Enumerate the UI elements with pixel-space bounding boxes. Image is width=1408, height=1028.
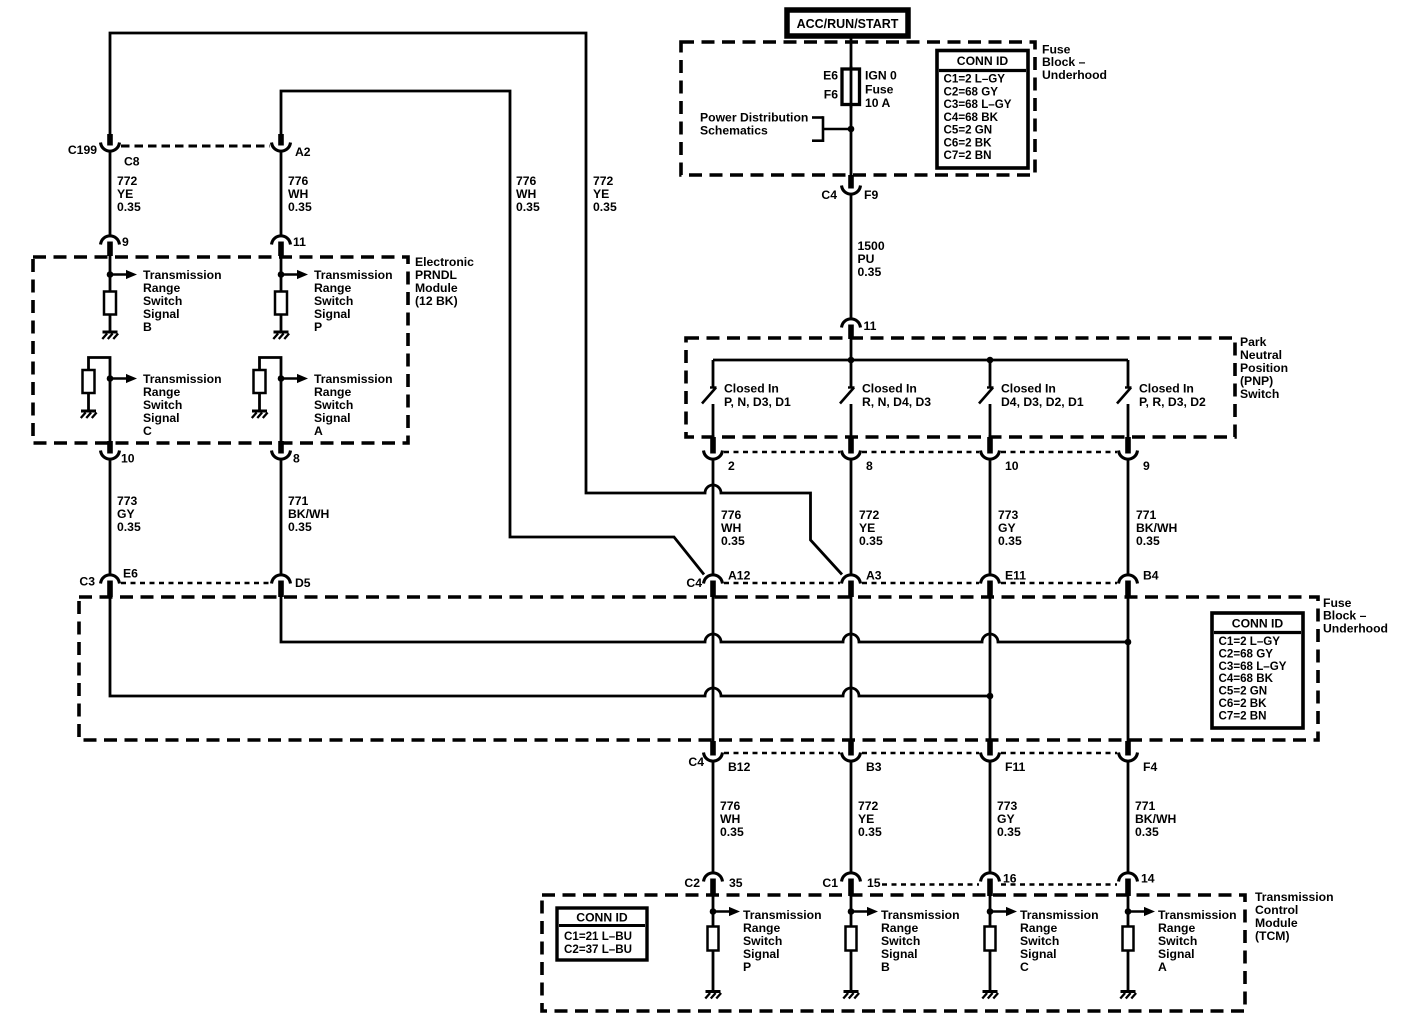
svg-text:Closed In: Closed In [1139, 382, 1194, 396]
svg-text:ACC/RUN/START: ACC/RUN/START [797, 17, 899, 31]
resistor signal C [83, 370, 95, 393]
svg-text:IGN 0: IGN 0 [865, 69, 897, 83]
wire 772 YE harness C199 to A3 [110, 33, 842, 575]
svg-text:Transmission: Transmission [1158, 908, 1237, 922]
svg-text:C3: C3 [79, 575, 95, 589]
svg-text:WH: WH [516, 187, 536, 201]
svg-text:B4: B4 [1143, 569, 1159, 583]
wire PNP pin 10 down to fuse block [989, 459, 992, 575]
junction dot TCM signal P [710, 908, 717, 915]
svg-text:Underhood: Underhood [1323, 621, 1388, 635]
svg-text:A2: A2 [295, 145, 311, 159]
svg-text:Closed In: Closed In [724, 382, 779, 396]
svg-text:Control: Control [1255, 903, 1298, 917]
svg-text:YE: YE [593, 187, 609, 201]
power feed box ACC/RUN/START [787, 10, 908, 36]
svg-text:0.35: 0.35 [858, 265, 882, 279]
svg-text:F11: F11 [1005, 760, 1026, 774]
wire B4 to F4 through fuse block [1127, 596, 1130, 744]
ground signal A [252, 411, 268, 418]
svg-text:776: 776 [721, 508, 742, 522]
svg-text:Electronic: Electronic [415, 255, 474, 269]
wire E6 to F11 inside fuse block (773 GY) [110, 596, 990, 696]
svg-text:0.35: 0.35 [997, 825, 1021, 839]
svg-text:Range: Range [743, 921, 780, 935]
svg-text:Transmission: Transmission [743, 908, 822, 922]
resistor TCM signal C [985, 927, 996, 951]
svg-text:C: C [1020, 960, 1029, 974]
ground signal C [81, 411, 97, 418]
svg-text:Transmission: Transmission [881, 908, 960, 922]
svg-text:772: 772 [859, 508, 880, 522]
svg-text:Power Distribution: Power Distribution [700, 111, 808, 125]
svg-text:0.35: 0.35 [1135, 825, 1159, 839]
wire resistor A to ground [258, 392, 261, 410]
svg-text:B12: B12 [728, 760, 751, 774]
svg-text:P: P [314, 320, 322, 334]
wire TCM resistor A to ground [1127, 950, 1130, 991]
wire B3 down to TCM [850, 761, 853, 873]
resistor signal A [254, 370, 266, 393]
svg-text:Transmission: Transmission [1020, 908, 1099, 922]
svg-text:Closed In: Closed In [1001, 382, 1056, 396]
connector pin 8 PRNDL [272, 441, 291, 459]
svg-text:Signal: Signal [743, 947, 780, 961]
svg-text:E6: E6 [823, 69, 838, 83]
svg-text:773: 773 [997, 799, 1018, 813]
ground signal B [102, 332, 118, 339]
junction dot 773 GY at F11 column [987, 693, 994, 700]
svg-text:0.35: 0.35 [593, 200, 617, 214]
conn id table (middle fuse block) [1212, 613, 1303, 728]
arrow TCM signal B [851, 907, 878, 916]
svg-text:(PNP): (PNP) [1240, 374, 1273, 388]
svg-text:C7=2 BN: C7=2 BN [944, 149, 992, 162]
wire resistor B to ground [109, 314, 112, 331]
svg-text:Switch: Switch [314, 294, 353, 308]
svg-text:Transmission: Transmission [143, 268, 222, 282]
wire fuse to connector C4/F9 [850, 104, 853, 177]
wire PNP pin 8 down to fuse block [850, 459, 853, 575]
svg-text:Signal: Signal [314, 411, 351, 425]
wire TCM pin 35 branch signal P [712, 895, 715, 927]
junction dot signal B [107, 271, 114, 278]
arrow TCM signal C [990, 907, 1017, 916]
wire TCM pin 15 branch signal B [850, 895, 853, 927]
wire resistor C to ground [87, 392, 90, 410]
connector C4 pin F4 [1119, 741, 1138, 761]
svg-text:Park: Park [1240, 335, 1267, 349]
ground signal P [273, 332, 289, 339]
svg-text:0.35: 0.35 [117, 200, 141, 214]
svg-text:Switch: Switch [1240, 387, 1279, 401]
svg-text:2: 2 [728, 459, 735, 473]
wire TCM resistor P to ground [712, 950, 715, 991]
wire TCM pin 16 branch signal C [989, 895, 992, 927]
svg-text:A: A [314, 424, 323, 438]
svg-text:C5=2 GN: C5=2 GN [1219, 685, 1268, 698]
svg-text:C6=2 BK: C6=2 BK [1219, 697, 1268, 710]
svg-text:C8: C8 [124, 155, 140, 169]
svg-text:Fuse: Fuse [865, 82, 894, 96]
svg-text:C4: C4 [821, 188, 837, 202]
wire 776 WH harness A2 to A12 [281, 91, 704, 575]
svg-text:C199: C199 [68, 143, 97, 157]
conn id table (TCM) [557, 908, 647, 960]
svg-text:10 A: 10 A [865, 96, 890, 110]
junction dot 771 BK/WH at F4 column [1125, 639, 1132, 646]
svg-text:WH: WH [720, 812, 740, 826]
svg-text:8: 8 [866, 459, 873, 473]
svg-text:B3: B3 [866, 760, 882, 774]
park neutral position switch box [686, 338, 1235, 437]
svg-text:Range: Range [881, 921, 918, 935]
wire 772 YE C8 to pin 9 [109, 152, 112, 237]
wire pin into module branch P [280, 256, 283, 292]
svg-text:CONN ID: CONN ID [957, 54, 1009, 68]
svg-text:Signal: Signal [314, 307, 351, 321]
svg-text:D5: D5 [295, 576, 311, 590]
svg-text:Switch: Switch [1158, 934, 1197, 948]
wire branch signal C [89, 358, 111, 442]
svg-text:B: B [881, 960, 890, 974]
arrow signal A [281, 374, 308, 383]
svg-text:0.35: 0.35 [720, 825, 744, 839]
wire pin into module branch B [109, 256, 112, 292]
svg-text:PRNDL: PRNDL [415, 268, 458, 282]
svg-text:P, R, D3, D2: P, R, D3, D2 [1139, 395, 1206, 409]
connector row dashed line TCM 15-16-14 [882, 883, 979, 885]
svg-text:772: 772 [858, 799, 879, 813]
resistor TCM signal B [846, 927, 857, 951]
svg-text:CONN ID: CONN ID [576, 911, 628, 925]
ground TCM signal P [705, 992, 721, 999]
svg-text:773: 773 [998, 508, 1019, 522]
resistor TCM signal P [708, 927, 719, 951]
connector C4 pin F11 [981, 741, 1000, 761]
svg-text:772: 772 [117, 174, 138, 188]
connector pin D5 [272, 575, 291, 597]
svg-text:0.35: 0.35 [858, 825, 882, 839]
svg-text:PU: PU [858, 252, 875, 266]
wire PNP feed bus [850, 337, 853, 360]
svg-text:Underhood: Underhood [1042, 68, 1107, 82]
svg-text:C2: C2 [684, 876, 700, 890]
svg-text:10: 10 [1005, 459, 1019, 473]
svg-text:Module: Module [1255, 916, 1298, 930]
arrow TCM signal P [713, 907, 740, 916]
svg-text:11: 11 [293, 235, 306, 249]
svg-text:Range: Range [143, 385, 180, 399]
svg-text:WH: WH [288, 187, 308, 201]
fuse IGN 0 10A E6/F6 [842, 66, 860, 108]
svg-text:Transmission: Transmission [1255, 890, 1334, 904]
resistor signal P [275, 292, 287, 315]
wire F4 down to TCM [1127, 761, 1130, 873]
wire B12 down to TCM [712, 761, 715, 873]
svg-text:C6=2 BK: C6=2 BK [944, 136, 993, 149]
junction dot signal C [107, 375, 114, 382]
svg-text:C1=2 L–GY: C1=2 L–GY [944, 73, 1006, 86]
svg-text:(12 BK): (12 BK) [415, 294, 458, 308]
switch S1 PNP contact [702, 360, 717, 438]
svg-text:Module: Module [415, 281, 458, 295]
svg-text:8: 8 [293, 452, 300, 466]
svg-text:F6: F6 [824, 88, 838, 102]
connector row dashed line E6-D5 [121, 582, 270, 584]
switch S4 PNP contact [1117, 360, 1132, 438]
svg-text:GY: GY [997, 812, 1015, 826]
wire PNP pin 9 down to fuse block [1127, 459, 1130, 575]
svg-text:C2=68 GY: C2=68 GY [1219, 647, 1274, 660]
connector C4 pin A3 [842, 575, 861, 597]
connector row dashed line B12-F4 [724, 752, 840, 754]
connector row dashed line PNP pins [724, 451, 840, 453]
svg-text:P: P [743, 960, 751, 974]
wire E11 to F11 through fuse block [989, 596, 992, 744]
svg-text:C4: C4 [686, 576, 702, 590]
connector C3 pin E6 [101, 575, 120, 597]
svg-text:Signal: Signal [143, 411, 180, 425]
ground TCM signal C [982, 992, 998, 999]
junction dot signal A [278, 375, 285, 382]
svg-text:0.35: 0.35 [721, 534, 745, 548]
svg-text:C: C [143, 424, 152, 438]
connector C4 pin B12 [704, 741, 723, 761]
connector C4/F9 [842, 175, 861, 194]
svg-text:0.35: 0.35 [117, 520, 141, 534]
arrow TCM signal A [1128, 907, 1155, 916]
svg-text:Signal: Signal [881, 947, 918, 961]
svg-text:C7=2 BN: C7=2 BN [1219, 709, 1267, 722]
connector PNP pin 10 [981, 437, 1000, 459]
wire resistor P to ground [280, 314, 283, 331]
connector TCM pin 35 [704, 873, 723, 896]
svg-text:Transmission: Transmission [314, 372, 393, 386]
wire A12 to B12 through fuse block [712, 596, 715, 744]
arrow signal B [110, 270, 137, 279]
svg-text:15: 15 [867, 876, 881, 890]
connector C4 pin E11 [981, 575, 1000, 597]
svg-text:Transmission: Transmission [314, 268, 393, 282]
svg-text:Signal: Signal [1020, 947, 1057, 961]
connector C4 pin A12 [704, 575, 723, 597]
fuse block underhood box (top) [681, 42, 1035, 175]
ground TCM signal A [1120, 992, 1136, 999]
svg-text:Range: Range [1158, 921, 1195, 935]
svg-text:D4, D3, D2, D1: D4, D3, D2, D1 [1001, 395, 1084, 409]
svg-text:771: 771 [288, 494, 309, 508]
svg-text:10: 10 [121, 452, 135, 466]
svg-text:C4=68 BK: C4=68 BK [1219, 672, 1274, 685]
svg-text:Range: Range [314, 385, 351, 399]
connector C4 pin B3 [842, 741, 861, 761]
svg-text:C1: C1 [822, 876, 838, 890]
wire A3 to B3 through fuse block [850, 596, 853, 744]
svg-text:E6: E6 [123, 567, 138, 581]
connector pin 11 PNP switch [842, 319, 861, 339]
svg-text:WH: WH [721, 521, 741, 535]
svg-text:Signal: Signal [1158, 947, 1195, 961]
svg-text:Range: Range [1020, 921, 1057, 935]
wire TCM resistor C to ground [989, 950, 992, 991]
svg-text:B: B [143, 320, 152, 334]
svg-text:P, N, D3, D1: P, N, D3, D1 [724, 395, 791, 409]
svg-text:0.35: 0.35 [1136, 534, 1160, 548]
power distribution schematics callout [700, 111, 849, 143]
svg-text:0.35: 0.35 [288, 200, 312, 214]
svg-text:(TCM): (TCM) [1255, 929, 1290, 943]
wire 773 GY pin 10 to E6 [109, 459, 112, 575]
svg-text:9: 9 [122, 235, 129, 249]
svg-text:C2=68 GY: C2=68 GY [944, 85, 999, 98]
connector PNP pin 9 [1119, 437, 1138, 459]
connector A2 [272, 134, 291, 151]
svg-text:CONN ID: CONN ID [1232, 617, 1284, 631]
wire branch signal A [260, 358, 282, 442]
connector C199/C8 [101, 134, 120, 151]
svg-text:Signal: Signal [143, 307, 180, 321]
svg-text:Switch: Switch [143, 398, 182, 412]
svg-text:F9: F9 [864, 188, 878, 202]
svg-text:772: 772 [593, 174, 614, 188]
wire 776 WH A2 to pin 11 [280, 152, 283, 237]
svg-text:GY: GY [117, 507, 135, 521]
svg-text:C5=2 GN: C5=2 GN [944, 124, 993, 137]
svg-text:0.35: 0.35 [516, 200, 540, 214]
fuse block underhood box (middle) [79, 597, 1318, 740]
svg-text:11: 11 [864, 319, 877, 333]
svg-text:Switch: Switch [1020, 934, 1059, 948]
svg-text:Switch: Switch [143, 294, 182, 308]
svg-text:C4=68 BK: C4=68 BK [944, 111, 999, 124]
svg-text:GY: GY [998, 521, 1016, 535]
switch S3 PNP contact [979, 360, 994, 438]
svg-text:C1=21 L–BU: C1=21 L–BU [564, 930, 632, 943]
arrow signal C [110, 374, 137, 383]
connector pin 9 PRNDL [101, 236, 120, 256]
svg-text:C4: C4 [688, 755, 704, 769]
svg-text:0.35: 0.35 [859, 534, 883, 548]
connector TCM pin 15 [842, 873, 861, 896]
connector PNP pin 2 [704, 437, 723, 459]
svg-text:YE: YE [859, 521, 875, 535]
wire D5 to F4 inside fuse block (771 BK/WH) [281, 596, 1128, 642]
svg-text:A12: A12 [728, 569, 751, 583]
ground TCM signal B [843, 992, 859, 999]
electronic PRNDL module box [33, 257, 408, 443]
svg-text:773: 773 [117, 494, 138, 508]
svg-text:Range: Range [314, 281, 351, 295]
svg-text:Switch: Switch [314, 398, 353, 412]
svg-text:14: 14 [1141, 872, 1155, 886]
svg-text:A3: A3 [866, 569, 882, 583]
svg-text:C3=68 L–GY: C3=68 L–GY [1219, 660, 1287, 673]
svg-text:R, N, D4, D3: R, N, D4, D3 [862, 395, 931, 409]
connector pin 10 PRNDL [101, 441, 120, 459]
svg-text:YE: YE [858, 812, 874, 826]
svg-text:Switch: Switch [743, 934, 782, 948]
junction dot TCM signal A [1125, 908, 1132, 915]
wire 771 BK/WH pin 8 to D5 [280, 459, 283, 575]
svg-text:Position: Position [1240, 361, 1288, 375]
junction dot power distribution tap [848, 126, 855, 133]
svg-text:E11: E11 [1005, 569, 1026, 583]
junction dot signal P [278, 271, 285, 278]
svg-text:771: 771 [1135, 799, 1156, 813]
connector PNP pin 8 [842, 437, 861, 459]
svg-text:BK/WH: BK/WH [288, 507, 329, 521]
junction dot bus at switch 3 [987, 357, 994, 364]
svg-text:C2=37 L–BU: C2=37 L–BU [564, 943, 632, 956]
connector row dashed line C199 [121, 145, 270, 148]
svg-text:Closed In: Closed In [862, 382, 917, 396]
svg-text:A: A [1158, 960, 1167, 974]
wire TCM resistor B to ground [850, 950, 853, 991]
connector pin 11 PRNDL [272, 236, 291, 256]
connector TCM pin 14 [1119, 873, 1138, 896]
resistor signal B [104, 292, 116, 315]
switch S2 PNP contact [840, 360, 855, 438]
conn id table (top fuse block) [937, 51, 1028, 169]
svg-text:776: 776 [720, 799, 741, 813]
svg-text:YE: YE [117, 187, 133, 201]
wire PNP pin 2 down to fuse block [712, 459, 715, 575]
svg-text:776: 776 [288, 174, 309, 188]
svg-text:9: 9 [1143, 459, 1150, 473]
svg-text:Neutral: Neutral [1240, 348, 1282, 362]
connector C4 pin B4 [1119, 575, 1138, 597]
wire F11 down to TCM [989, 761, 992, 873]
svg-text:Switch: Switch [881, 934, 920, 948]
wire TCM pin 14 branch signal A [1127, 895, 1130, 927]
svg-text:F4: F4 [1143, 760, 1157, 774]
wire ACC/RUN/START to fuse E6 [850, 38, 853, 70]
svg-text:Schematics: Schematics [700, 124, 768, 138]
transmission control module box [542, 895, 1245, 1011]
svg-text:C3=68 L–GY: C3=68 L–GY [944, 98, 1012, 111]
arrow signal P [281, 270, 308, 279]
connector TCM pin 16 [981, 873, 1000, 896]
svg-text:C1=2 L–GY: C1=2 L–GY [1219, 635, 1281, 648]
connector row dashed line A12-B4 [724, 582, 840, 584]
junction dot TCM signal B [848, 908, 855, 915]
wire 1500 PU 0.35 to PNP switch [850, 195, 853, 320]
svg-text:35: 35 [729, 876, 743, 890]
svg-text:Range: Range [143, 281, 180, 295]
svg-text:Transmission: Transmission [143, 372, 222, 386]
svg-text:BK/WH: BK/WH [1136, 521, 1177, 535]
svg-text:0.35: 0.35 [288, 520, 312, 534]
svg-text:771: 771 [1136, 508, 1157, 522]
resistor TCM signal A [1123, 927, 1134, 951]
svg-text:0.35: 0.35 [998, 534, 1022, 548]
junction dot TCM signal C [987, 908, 994, 915]
junction dot bus at switch 2 [848, 357, 855, 364]
svg-text:1500: 1500 [858, 239, 885, 253]
svg-text:BK/WH: BK/WH [1135, 812, 1176, 826]
svg-text:776: 776 [516, 174, 537, 188]
